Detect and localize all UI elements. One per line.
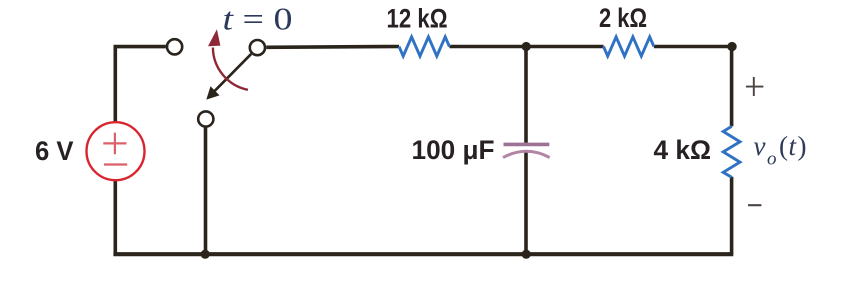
svg-text:2 kΩ: 2 kΩ: [599, 3, 647, 33]
switch motion arc (maroon): [213, 48, 248, 90]
minus polarity mark for vo: [748, 204, 761, 206]
svg-text:12 kΩ: 12 kΩ: [387, 3, 448, 33]
node D junction dot bottom capacitor: [522, 250, 531, 259]
wire right branch lower: [730, 177, 734, 254]
wire capacitor branch upper: [524, 47, 528, 143]
switch blade with arrowhead: [215, 54, 251, 91]
resistor R1 12k zigzag: [399, 37, 449, 56]
svg-text:t = 0: t = 0: [223, 1, 293, 37]
svg-text:4 kΩ: 4 kΩ: [654, 135, 712, 165]
svg-text:6 V: 6 V: [35, 136, 74, 166]
voltage source V1 circle: [87, 122, 145, 180]
wire 2k to top-right corner: [654, 45, 732, 49]
node C junction dot bottom switch: [201, 250, 210, 259]
node A junction dot top-middle: [522, 42, 531, 51]
resistor R3 4k vertical zigzag: [723, 126, 740, 177]
wire 12k to 2k through node: [449, 45, 603, 49]
wire bottom rail: [113, 252, 733, 256]
minus sign inside source: [104, 163, 127, 165]
plus polarity mark for vo: [746, 77, 764, 96]
plus sign inside source: [103, 133, 126, 155]
wire capacitor branch lower: [524, 151, 528, 254]
capacitor C1 curved plate: [503, 151, 550, 157]
node B junction dot top-right: [727, 42, 736, 51]
resistor R2 2k zigzag: [604, 37, 654, 56]
svg-text:100 μF: 100 μF: [412, 135, 495, 165]
switch terminal bottom: [198, 111, 213, 126]
wire switch lower branch: [204, 126, 208, 254]
capacitor C1 top plate: [504, 143, 550, 147]
maroon arrowhead: [208, 29, 220, 46]
switch terminal right: [250, 40, 265, 55]
wire left vertical below source to bottom-left corner: [114, 180, 118, 255]
wire right branch upper: [730, 45, 734, 127]
wire top-left L from corner to switch terminal: [115, 47, 166, 123]
wire top middle from switch to 12k: [266, 45, 399, 49]
switch terminal left: [167, 39, 182, 54]
